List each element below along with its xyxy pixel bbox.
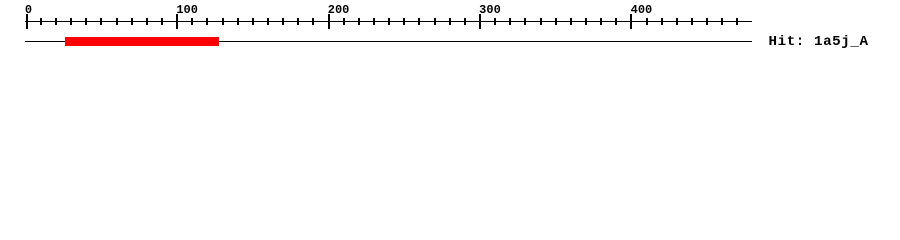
hit label text xyxy=(769,35,869,49)
ruler axis line xyxy=(25,21,752,22)
ruler minor tick 150 xyxy=(252,18,254,25)
ruler minor tick 170 xyxy=(282,18,284,25)
ruler minor tick 80 xyxy=(146,18,148,25)
ruler label 0 xyxy=(25,4,32,16)
ruler major tick 300 xyxy=(479,14,481,29)
ruler major tick 100 xyxy=(176,14,178,29)
ruler minor tick 290 xyxy=(464,18,466,25)
ruler minor tick 430 xyxy=(676,18,678,25)
ruler minor tick 420 xyxy=(661,18,663,25)
ruler label 400 xyxy=(631,4,653,16)
ruler minor tick 90 xyxy=(161,18,163,25)
ruler minor tick 330 xyxy=(524,18,526,25)
ruler minor tick 470 xyxy=(736,18,738,25)
ruler minor tick 370 xyxy=(585,18,587,25)
ruler minor tick 10 xyxy=(40,18,42,25)
ruler minor tick 50 xyxy=(100,18,102,25)
ruler major tick 200 xyxy=(328,14,330,29)
ruler minor tick 340 xyxy=(540,18,542,25)
ruler minor tick 160 xyxy=(267,18,269,25)
ruler major tick 400 xyxy=(630,14,632,29)
ruler minor tick 360 xyxy=(570,18,572,25)
ruler minor tick 180 xyxy=(297,18,299,25)
hit alignment red bar xyxy=(65,37,220,46)
ruler minor tick 380 xyxy=(600,18,602,25)
ruler minor tick 70 xyxy=(131,18,133,25)
ruler minor tick 240 xyxy=(388,18,390,25)
ruler minor tick 110 xyxy=(191,18,193,25)
ruler minor tick 310 xyxy=(494,18,496,25)
ruler label 300 xyxy=(479,4,501,16)
ruler minor tick 410 xyxy=(646,18,648,25)
ruler minor tick 390 xyxy=(615,18,617,25)
ruler minor tick 250 xyxy=(403,18,405,25)
ruler minor tick 40 xyxy=(85,18,87,25)
ruler major tick 0 xyxy=(26,14,28,29)
ruler minor tick 220 xyxy=(358,18,360,25)
ruler minor tick 450 xyxy=(706,18,708,25)
ruler minor tick 440 xyxy=(691,18,693,25)
ruler minor tick 20 xyxy=(55,18,57,25)
ruler minor tick 460 xyxy=(721,18,723,25)
ruler minor tick 130 xyxy=(222,18,224,25)
ruler minor tick 60 xyxy=(116,18,118,25)
ruler label 100 xyxy=(176,4,198,16)
ruler minor tick 270 xyxy=(434,18,436,25)
ruler minor tick 120 xyxy=(206,18,208,25)
query line xyxy=(25,41,752,42)
ruler minor tick 350 xyxy=(555,18,557,25)
ruler minor tick 140 xyxy=(237,18,239,25)
ruler minor tick 260 xyxy=(418,18,420,25)
ruler minor tick 30 xyxy=(70,18,72,25)
ruler minor tick 320 xyxy=(509,18,511,25)
ruler label 200 xyxy=(328,4,350,16)
ruler minor tick 280 xyxy=(449,18,451,25)
ruler minor tick 210 xyxy=(343,18,345,25)
ruler minor tick 230 xyxy=(373,18,375,25)
ruler minor tick 190 xyxy=(312,18,314,25)
